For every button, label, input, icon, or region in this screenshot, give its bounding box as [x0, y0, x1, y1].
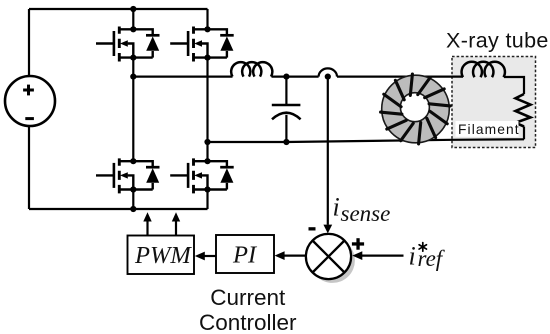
svg-text:PWM: PWM — [134, 242, 192, 269]
svg-text:Filament: Filament — [458, 122, 520, 137]
svg-text:X-ray tube: X-ray tube — [446, 29, 549, 53]
svg-text:Current: Current — [210, 285, 286, 310]
svg-text:i: i — [409, 242, 416, 271]
svg-text:Controller: Controller — [199, 310, 297, 334]
svg-text:sense: sense — [341, 201, 391, 226]
svg-text:ref: ref — [418, 246, 446, 271]
svg-text:PI: PI — [232, 242, 258, 269]
svg-text:i: i — [333, 193, 340, 222]
